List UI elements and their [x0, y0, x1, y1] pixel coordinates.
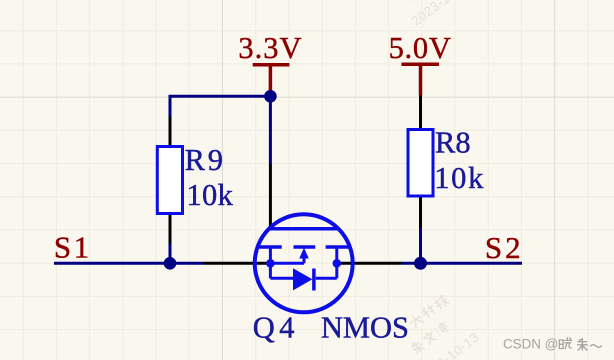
- svg-text:R9: R9: [185, 143, 226, 177]
- watermark diagonal top (date fragment): [396, 0, 475, 29]
- svg-text:10k: 10k: [187, 178, 234, 212]
- svg-text:R8: R8: [435, 126, 471, 160]
- wire S1: [54, 262, 204, 265]
- transistor Q4 bulk-source link: [270, 262, 304, 265]
- watermark diagonal bottom (name + date): [387, 292, 482, 360]
- transistor Q4 body circle: [255, 214, 353, 312]
- svg-text:10k: 10k: [434, 161, 485, 195]
- svg-text:Q4: Q4: [253, 311, 299, 345]
- resistor R8 body: [408, 130, 433, 197]
- resistor R8 pin 2: [419, 196, 422, 228]
- svg-text:S1: S1: [54, 229, 92, 264]
- wire R9 bottom to S1 node: [169, 244, 172, 264]
- svg-text:5.0V: 5.0V: [389, 31, 452, 65]
- resistor R8 pin 1: [419, 96, 422, 130]
- watermark CSDN @xiaozhu: [503, 337, 602, 352]
- transistor Q4 body-diode cathode bar: [312, 269, 316, 291]
- transistor Q4 bulk arrow: [299, 248, 309, 263]
- svg-text:S2: S2: [485, 230, 524, 265]
- transistor Q4 body-diode triangle: [293, 268, 312, 290]
- transistor Q4 source pin: [204, 262, 268, 265]
- wire 3.3V rail down to Q4 gate: [269, 96, 272, 164]
- resistor R9 pin 1: [169, 117, 172, 147]
- resistor R9 body: [157, 147, 182, 214]
- junction dot S2 node: [414, 257, 427, 270]
- transistor Q4 source stem: [269, 247, 272, 278]
- transistor Q4 source node dot: [266, 259, 275, 268]
- svg-text:3.3V: 3.3V: [238, 31, 302, 65]
- transistor Q4 source channel bar: [259, 245, 282, 249]
- transistor Q4 drain channel bar: [326, 245, 349, 249]
- transistor Q4 drain stem: [335, 247, 338, 278]
- svg-text:CSDN @: CSDN @: [503, 337, 558, 352]
- transistor Q4 drain pin: [337, 262, 401, 265]
- power flag 5.0V: [402, 64, 440, 95]
- transistor Q4 gate bar: [270, 227, 339, 231]
- wire S2: [401, 262, 522, 265]
- svg-text:NMOS: NMOS: [321, 311, 409, 345]
- transistor Q4 drain node dot: [333, 259, 342, 268]
- wire 3.3V rail to R9 (left + down): [170, 96, 270, 116]
- transistor Q4 body-diode cathode lead: [316, 277, 337, 280]
- transistor Q4 gate pin: [269, 165, 272, 227]
- junction dot 3.3V rail: [264, 90, 277, 103]
- transistor Q4 bulk channel bar: [294, 245, 316, 249]
- transistor Q4 body-diode anode lead: [270, 277, 293, 280]
- resistor R9 pin 2: [169, 214, 172, 244]
- wire R8 bottom to S2 node: [419, 228, 422, 264]
- power flag 3.3V: [253, 65, 290, 91]
- junction dot S1 node: [164, 257, 177, 270]
